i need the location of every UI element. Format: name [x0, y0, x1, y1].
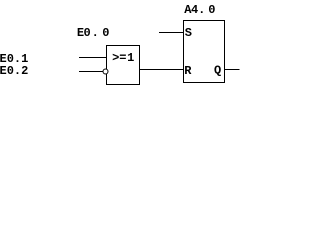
- svg-text:S: S: [185, 26, 192, 40]
- wire E0.1 to OR input 1: [79, 57, 107, 59]
- svg-text:E0.2: E0.2: [0, 64, 28, 78]
- svg-text:E0.0: E0.0: [77, 26, 110, 40]
- svg-text:R: R: [184, 64, 192, 78]
- svg-text:Q: Q: [214, 64, 221, 78]
- wire Q output: [225, 69, 240, 71]
- SR flip-flop box U1: [184, 21, 225, 83]
- svg-text:A4.0: A4.0: [184, 3, 215, 17]
- wire OR output to R input: [140, 69, 184, 71]
- svg-text:>=1: >=1: [112, 51, 134, 65]
- OR gate >=1 box: [107, 46, 140, 85]
- negated input bubble: [103, 69, 108, 74]
- wire E0.2 to negation bubble: [79, 71, 103, 73]
- wire S input stub: [159, 32, 184, 34]
